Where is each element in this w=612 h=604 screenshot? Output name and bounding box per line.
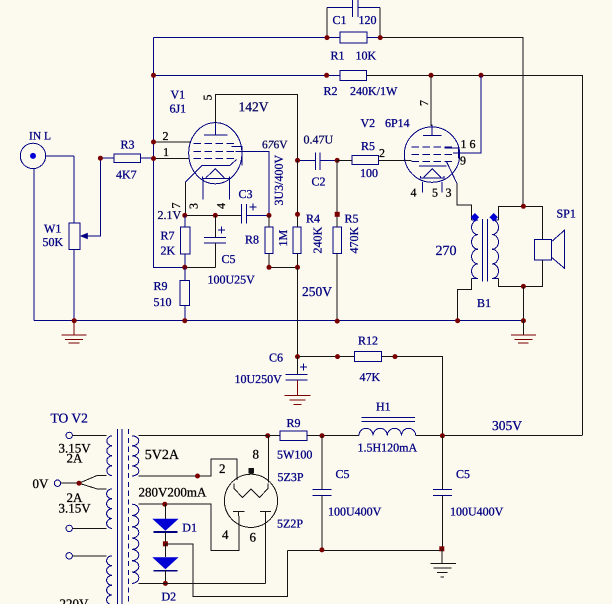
wire HV top (139, 504, 240, 550)
V2 pin5 stub (441, 182, 443, 193)
svg-text:3U3/400V: 3U3/400V (272, 154, 286, 205)
tube V1 envelope (189, 123, 242, 184)
rectifier tube V3 envelope (224, 474, 277, 527)
wire connector to pot top (46, 155, 74, 157)
resistor R12 (354, 352, 381, 362)
node C5 filter2 ground (439, 546, 444, 551)
B1 phase dot primary (471, 213, 479, 221)
svg-text:C6: C6 (269, 351, 283, 365)
node R1 right (378, 35, 383, 40)
svg-text:676V: 676V (262, 139, 288, 151)
node C3 right / g2 bypass (267, 213, 272, 218)
V1 g2 bracket (231, 147, 242, 166)
transformer T HV winding (132, 504, 139, 583)
wire R9 leads (184, 267, 186, 320)
resistor R2 (340, 70, 367, 80)
svg-text:C1: C1 (332, 13, 346, 27)
capacitor C2 coupling (298, 153, 338, 170)
svg-text:250V: 250V (302, 284, 332, 299)
transformer T 5V winding (132, 436, 139, 476)
transformer T heater winding 2 (107, 489, 113, 529)
diode D1 (152, 504, 178, 544)
wire R7 leads (184, 215, 186, 267)
node C6 top (295, 354, 300, 359)
wire rectifier output row (268, 435, 583, 437)
wire HV bottom (139, 582, 266, 584)
V1 cathode (185, 160, 236, 183)
svg-text:100: 100 (360, 166, 378, 180)
wire C1 right loop (379, 7, 381, 37)
svg-text:6J1: 6J1 (169, 102, 186, 116)
svg-text:C2: C2 (311, 175, 325, 189)
svg-text:280V200mA: 280V200mA (138, 485, 207, 500)
ground symbol main (430, 549, 455, 577)
node R7 bottom (182, 265, 187, 270)
speaker SP1 (534, 230, 564, 269)
C5 plus sign (218, 227, 225, 234)
svg-text:C3: C3 (238, 187, 252, 201)
node C5 filter1 ground (319, 547, 324, 552)
node R4 mid joint (295, 212, 300, 217)
node C2 right (335, 158, 340, 163)
node pin1 (151, 156, 156, 161)
V1 heater (203, 169, 230, 179)
B1 core (483, 219, 488, 282)
wire cathode node row (185, 214, 242, 216)
wire heater top (72, 435, 106, 437)
node feedback takeoff (521, 204, 526, 209)
svg-text:IN L: IN L (29, 131, 51, 143)
node R8 bottom (267, 265, 272, 270)
V2 cathode (419, 161, 457, 183)
wire primary bottom to ground (458, 279, 472, 321)
SECTION: power supply (32, 267, 582, 604)
wire V2 pin3 to primary (457, 184, 472, 220)
B1 phase dot secondary (489, 213, 497, 221)
node R3 left (98, 156, 103, 161)
svg-text:5V2A: 5V2A (145, 448, 180, 463)
svg-text:C5: C5 (335, 467, 349, 481)
V2 heater (421, 169, 444, 178)
potentiometer W1 (69, 156, 80, 321)
node bus R2 row (151, 73, 156, 78)
inductor H1 (359, 428, 416, 435)
wire cathode net bottom rail (185, 266, 216, 268)
wire C1 left loop (326, 7, 328, 37)
svg-text:470K: 470K (347, 226, 361, 253)
svg-text:5: 5 (200, 94, 214, 100)
svg-text:4: 4 (222, 527, 229, 542)
wire 0V tap (61, 476, 107, 489)
svg-text:100U25V: 100U25V (207, 273, 255, 287)
svg-text:H1: H1 (376, 400, 391, 414)
rectifier filament (234, 484, 268, 498)
resistor R7 (181, 227, 190, 254)
node H1 right / C5 top (440, 433, 445, 438)
wire filter ground bus (288, 549, 442, 551)
node B1 ground (521, 318, 526, 323)
resistor R5 grid leak 470K (333, 227, 341, 254)
wire R1 row right to feedback drop (380, 38, 523, 207)
svg-text:SP1: SP1 (556, 207, 575, 221)
ground symbol C6 (285, 396, 311, 405)
wire R2 leads (327, 74, 380, 76)
node R5 mid joint (335, 212, 340, 217)
node V2 screen row (479, 73, 484, 78)
svg-text:R2: R2 (323, 84, 337, 98)
svg-text:C5: C5 (221, 252, 235, 266)
node R12 left joint (335, 354, 340, 359)
wire V2 plate to B+ row (430, 75, 432, 126)
svg-text:3.15V: 3.15V (58, 501, 91, 516)
wire heater bottom (72, 527, 106, 529)
V2 plate (423, 125, 441, 136)
node R9 ground (182, 318, 187, 323)
wire secondary top to speaker (498, 206, 542, 239)
node primary ground (455, 318, 460, 323)
connector IN L (20, 143, 45, 168)
wire R5 470K leads (336, 160, 338, 321)
svg-text:R5: R5 (344, 212, 358, 226)
node R9 5W100 left (265, 433, 270, 438)
svg-text:2: 2 (162, 129, 168, 143)
terminal 220V (66, 553, 72, 559)
svg-text:0V: 0V (32, 476, 49, 491)
node D2 bottom (163, 581, 168, 586)
transformer B1 secondary (492, 220, 498, 279)
svg-text:4: 4 (214, 203, 228, 209)
wire connector shield to ground bus (33, 169, 35, 321)
C6 plus sign (300, 364, 307, 371)
svg-text:W1: W1 (44, 222, 61, 236)
svg-text:4: 4 (410, 186, 416, 200)
svg-text:R4: R4 (306, 212, 320, 226)
capacitor C5 cathode bypass (204, 215, 226, 267)
svg-text:9: 9 (460, 154, 466, 168)
node cathode 2.1V (182, 213, 187, 218)
svg-text:1: 1 (163, 145, 169, 159)
node R9 5W100 right / C5 top (320, 433, 325, 438)
terminal heater bottom (66, 525, 72, 531)
wire 250V rail (269, 266, 298, 268)
wire pin1 (154, 158, 190, 160)
node pin2 (151, 140, 156, 145)
svg-text:510: 510 (153, 295, 171, 309)
transformer B1 primary (472, 220, 478, 279)
svg-text:100U400V: 100U400V (450, 505, 504, 519)
svg-text:120: 120 (358, 13, 376, 27)
svg-text:220V: 220V (59, 596, 89, 604)
node V2 plate row (429, 73, 434, 78)
svg-text:D2: D2 (161, 590, 176, 604)
wire pin8 drop (267, 436, 269, 483)
V2 g2 bracket (445, 148, 459, 158)
terminal 0V (54, 480, 60, 486)
W1 wiper arrow (80, 158, 101, 239)
transformer T core (117, 429, 122, 604)
resistor R8 screen feed (265, 227, 273, 254)
wire diode junction to bus (165, 544, 287, 597)
wire 220V (72, 555, 106, 557)
wire R8 leads (268, 215, 270, 267)
wire left bus vertical (154, 38, 185, 268)
svg-text:R9: R9 (153, 279, 167, 293)
wire secondary ground drop (522, 286, 524, 320)
resistor R9 cathode (180, 281, 189, 306)
wire V1 g2 to bypass node (236, 151, 270, 215)
svg-text:5Z2P: 5Z2P (277, 517, 303, 531)
svg-text:V1: V1 (170, 88, 185, 102)
SECTION: top feedback network (151, 0, 583, 435)
svg-text:240K: 240K (310, 226, 324, 253)
wire R3 right lead to grid (140, 157, 153, 159)
svg-text:8: 8 (252, 447, 259, 462)
terminal heater top (66, 432, 72, 438)
transformer T shield dashed (127, 429, 129, 604)
resistor R9 5W100 (280, 431, 307, 441)
choke H1 core (362, 418, 416, 422)
capacitor C5 first filter (312, 436, 331, 550)
resistor R1 (340, 32, 367, 43)
wire R5 100 leads (337, 159, 411, 161)
svg-text:305V: 305V (492, 418, 522, 433)
transformer T mains winding (107, 556, 113, 604)
tube V2 envelope (404, 127, 459, 182)
wire pin6 drop (265, 516, 267, 583)
svg-text:R3: R3 (120, 138, 134, 152)
svg-text:R8: R8 (245, 233, 259, 247)
wire V1 pin7 cathode lead (184, 182, 186, 215)
node 0V tap (77, 481, 82, 486)
ground symbol B1 (511, 321, 536, 343)
V1 pin3 stub (202, 178, 204, 199)
wire pin2 (154, 141, 191, 143)
wire R12 row (298, 357, 443, 436)
node V1 plate out (295, 158, 300, 163)
svg-text:7: 7 (417, 100, 431, 106)
capacitor C3 (242, 204, 270, 224)
rectifier top marker (249, 468, 255, 474)
wire V2 screen to B+ row (453, 75, 481, 153)
wire R1 row left to bus (154, 37, 328, 39)
capacitor C1 (327, 0, 380, 17)
V2 pin4 stub (421, 182, 423, 193)
svg-text:R9: R9 (286, 416, 300, 430)
node C5 top (213, 213, 218, 218)
svg-text:6P14: 6P14 (385, 116, 410, 130)
svg-text:V2: V2 (360, 116, 375, 130)
node secondary ground (521, 284, 526, 289)
resistor R5 grid stopper 100 (352, 155, 379, 164)
svg-text:3: 3 (186, 203, 200, 209)
svg-text:6: 6 (249, 530, 256, 545)
V1 grid dashes (193, 143, 235, 158)
svg-text:2K: 2K (160, 244, 175, 258)
svg-text:4K7: 4K7 (116, 168, 137, 182)
wire R2 row left to bus (154, 74, 327, 76)
wire V1 plate to C2 node (216, 94, 298, 160)
svg-text:1.5H120mA: 1.5H120mA (357, 441, 417, 455)
svg-text:R1: R1 (330, 49, 344, 63)
node R5 ground (335, 319, 340, 324)
node HV top diode (162, 502, 167, 507)
svg-text:1M: 1M (276, 229, 290, 246)
node diode junction (163, 541, 168, 546)
ground bus wire (34, 320, 523, 322)
wire 5V top to rectifier row (139, 435, 268, 437)
svg-text:2.1V: 2.1V (157, 208, 181, 222)
wire 250V drop to C6 (297, 267, 299, 356)
C3 plus sign (250, 204, 257, 211)
svg-text:270: 270 (435, 244, 456, 259)
V1 plate (204, 123, 227, 135)
svg-text:2: 2 (219, 461, 226, 476)
svg-text:TO V2: TO V2 (50, 411, 87, 426)
ground symbol left (62, 321, 87, 343)
svg-text:142V: 142V (238, 99, 268, 114)
svg-text:0.47U: 0.47U (303, 133, 333, 147)
wire secondary bottom to speaker (498, 260, 542, 287)
wire R3 left lead (100, 157, 114, 159)
resistor R3 (114, 154, 140, 163)
node R2 left (324, 73, 329, 78)
svg-text:R7: R7 (160, 229, 174, 243)
svg-text:5W100: 5W100 (277, 448, 312, 462)
svg-text:47K: 47K (359, 370, 380, 384)
svg-text:1 6: 1 6 (460, 137, 475, 151)
capacitor C6 (286, 357, 308, 396)
svg-text:50K: 50K (42, 235, 63, 249)
wire R4 leads (297, 160, 299, 267)
transformer T heater winding 1 (107, 436, 112, 476)
svg-text:10U250V: 10U250V (234, 372, 282, 386)
svg-text:2: 2 (379, 146, 385, 160)
svg-text:C5: C5 (456, 467, 470, 481)
svg-text:D1: D1 (182, 521, 197, 535)
svg-text:240K/1W: 240K/1W (350, 84, 398, 98)
svg-text:B1: B1 (477, 296, 491, 310)
diode D2 (152, 544, 178, 584)
svg-text:100U400V: 100U400V (328, 505, 382, 519)
capacitor C5 second filter (433, 436, 452, 549)
svg-text:2A: 2A (66, 451, 83, 466)
wire R2 row right to 305V drop (367, 75, 583, 435)
svg-text:5: 5 (432, 186, 438, 200)
wire 5V bottom to pin2 (139, 459, 238, 480)
node W1 ground (72, 318, 77, 323)
node R1 left (325, 35, 330, 40)
rectifier plate 1 (233, 512, 245, 516)
V1 pin4 stub (229, 178, 231, 199)
svg-text:5Z3P: 5Z3P (277, 470, 303, 484)
node R12 right joint (393, 354, 398, 359)
SECTION: V2 stage and output (337, 75, 576, 343)
node R4 bottom (295, 265, 300, 270)
node 5V bottom joint (195, 474, 200, 479)
svg-text:R5: R5 (361, 139, 375, 153)
svg-text:10K: 10K (355, 49, 376, 63)
V2 grid dashes (412, 147, 455, 161)
resistor R4 plate load (293, 227, 301, 254)
SECTION: V1 stage (20, 88, 523, 344)
svg-text:R12: R12 (358, 334, 378, 348)
svg-text:3: 3 (445, 186, 451, 200)
rectifier plate 2 (260, 512, 271, 516)
wire R1 leads (327, 37, 380, 39)
